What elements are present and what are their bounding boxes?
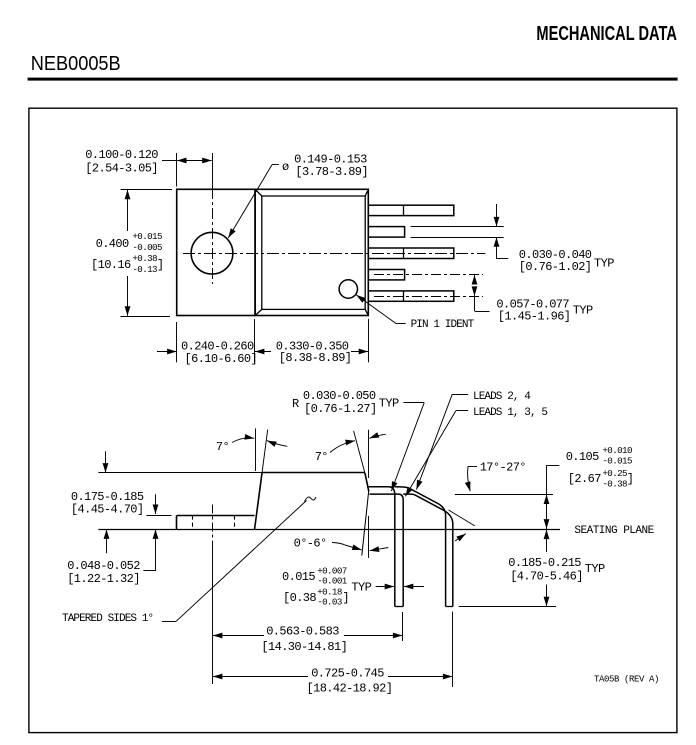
- svg-text:[10.16: [10.16: [91, 258, 131, 272]
- svg-text:[0.38: [0.38: [283, 591, 316, 605]
- svg-text:LEADS 1, 3, 5: LEADS 1, 3, 5: [473, 407, 547, 419]
- dimension: lead thickness 0.015 TYP: [282, 566, 424, 608]
- lead 1 centerline: [374, 296, 483, 298]
- lead 2 centerline: [374, 274, 483, 276]
- molded body inner (chamfer) outline: [262, 196, 365, 309]
- svg-text:[4.70-5.46]: [4.70-5.46]: [510, 570, 583, 584]
- dimension: hole offset 0.100-0.120: [85, 148, 211, 187]
- body chamfer diagonal bottom-right: [365, 309, 368, 315]
- svg-text:0.400: 0.400: [96, 237, 129, 251]
- svg-text:[8.38-8.89]: [8.38-8.89]: [279, 351, 352, 365]
- svg-text:[2.54-3.05]: [2.54-3.05]: [85, 161, 158, 175]
- border frame: [29, 108, 677, 732]
- dimension: tab height 0.400: [91, 190, 172, 317]
- svg-text:]: ]: [342, 591, 349, 605]
- svg-text:0.100-0.120: 0.100-0.120: [85, 148, 158, 162]
- svg-text:TA05B (REV A): TA05B (REV A): [594, 674, 659, 684]
- hole hidden edge left: [192, 515, 194, 529]
- dimension: tab width 0.240-0.260: [157, 319, 271, 366]
- lead bend tangent reference line: [449, 510, 475, 526]
- dimension: hole diameter 0.149-0.153: [228, 152, 368, 238]
- body right side upper: [365, 473, 369, 491]
- left 7 deg construction: [216, 428, 288, 473]
- dimension: 0.725-0.745: [213, 612, 453, 696]
- body chamfer diagonal bottom-left: [255, 309, 262, 315]
- lead 3 (middle): [368, 248, 454, 259]
- svg-text:ø: ø: [282, 160, 289, 174]
- svg-text:[2.67: [2.67: [568, 472, 601, 486]
- svg-text:-0.38: -0.38: [602, 479, 627, 490]
- body top edge: [262, 472, 365, 474]
- svg-text:+0.38: +0.38: [132, 253, 157, 264]
- svg-text:7°: 7°: [315, 450, 328, 464]
- svg-text:-0.03: -0.03: [317, 597, 342, 608]
- dimension: tab thickness 0.048-0.052: [67, 494, 156, 586]
- body right side lower / 0-6 deg draft line: [362, 491, 369, 556]
- label: LEADS 1,3,5: [405, 407, 547, 496]
- dimension: 0.563-0.583: [213, 612, 403, 654]
- dimension: lead angle 17-27 deg: [455, 461, 553, 541]
- svg-text:]: ]: [157, 258, 164, 272]
- svg-text:TYP: TYP: [351, 580, 371, 594]
- label: PIN 1 IDENT: [356, 295, 474, 331]
- tab top extension line: [147, 515, 172, 517]
- lead tip extension line: [459, 606, 556, 608]
- lead 2,4 (front, bends down near body): [369, 487, 404, 607]
- svg-text:0.725-0.745: 0.725-0.745: [311, 666, 384, 680]
- svg-text:0.563-0.583: 0.563-0.583: [266, 625, 339, 639]
- hole centerline extension to dimensions: [212, 546, 214, 684]
- dimension: bend radius R 0.030-0.050 TYP: [292, 389, 424, 491]
- seating plane line / tab and body bottom: [98, 529, 560, 531]
- svg-text:[0.76-1.02]: [0.76-1.02]: [519, 260, 592, 274]
- svg-text:R: R: [292, 397, 299, 411]
- body chamfer diagonal top-left: [255, 189, 262, 196]
- lead 5 (top): [368, 205, 454, 215]
- svg-text:TYP: TYP: [585, 562, 605, 576]
- svg-text:[4.45-4.70]: [4.45-4.70]: [71, 502, 144, 516]
- tab top edge: [177, 515, 255, 517]
- svg-text:TYP: TYP: [594, 257, 614, 271]
- svg-text:+0.010: +0.010: [602, 445, 632, 456]
- hole centerline dash-dot: [212, 505, 214, 547]
- lead 2 (short): [368, 270, 404, 280]
- dimension: body height 0.175-0.185: [71, 451, 144, 553]
- svg-text:MECHANICAL DATA: MECHANICAL DATA: [536, 23, 677, 45]
- svg-text:SEATING PLANE: SEATING PLANE: [574, 525, 654, 537]
- svg-text:17°-27°: 17°-27°: [480, 461, 526, 475]
- hole vertical centerline / extension: [212, 153, 214, 188]
- pin 1 ident circle: [339, 280, 357, 298]
- lead 4 (short): [368, 227, 404, 238]
- svg-text:[1.22-1.32]: [1.22-1.32]: [67, 572, 140, 586]
- dimension: lead pitch 0.057-0.077 TYP: [475, 275, 594, 324]
- dimension: 0-6 deg draft: [294, 516, 389, 558]
- svg-text:PIN 1 IDENT: PIN 1 IDENT: [411, 319, 475, 331]
- svg-text:[18.42-18.92]: [18.42-18.92]: [307, 682, 393, 696]
- svg-text:[6.10-6.60]: [6.10-6.60]: [185, 352, 258, 366]
- svg-text:-0.015: -0.015: [602, 456, 632, 467]
- svg-text:]: ]: [627, 472, 634, 486]
- dimension: body width 0.330-0.350: [276, 319, 369, 365]
- label: TAPERED SIDES 1 deg with squiggle leader: [62, 497, 316, 625]
- lead 1,3,5 (back, extends then bends at angle): [395, 487, 453, 607]
- body top extension line (left): [98, 472, 262, 474]
- svg-text:LEADS 2, 4: LEADS 2, 4: [473, 391, 531, 403]
- right 7 deg construction: [315, 430, 386, 478]
- svg-text:[0.76-1.27]: [0.76-1.27]: [304, 402, 377, 416]
- lead bottom extension line: [455, 494, 553, 496]
- svg-text:-0.005: -0.005: [132, 242, 162, 253]
- svg-text:[14.30-14.81]: [14.30-14.81]: [261, 640, 347, 654]
- svg-text:NEB0005B: NEB0005B: [31, 53, 121, 75]
- svg-text:TYP: TYP: [379, 397, 399, 411]
- dimension: lead width 0.030-0.040 TYP: [411, 204, 615, 274]
- svg-text:-0.001: -0.001: [317, 576, 348, 587]
- svg-text:-0.13: -0.13: [132, 264, 157, 275]
- tab left edge: [176, 515, 178, 529]
- body chamfer diagonal top-right: [365, 189, 368, 196]
- svg-text:TYP: TYP: [573, 304, 593, 318]
- mounting tab outline: [177, 189, 255, 315]
- svg-text:0.105: 0.105: [566, 450, 599, 464]
- svg-text:0.185-0.215: 0.185-0.215: [508, 556, 581, 570]
- molded body outer outline: [255, 189, 368, 315]
- svg-text:0°-6°: 0°-6°: [294, 536, 327, 550]
- hole hidden edge right: [234, 515, 236, 529]
- lead 1 (bottom): [368, 291, 454, 301]
- svg-text:0.015: 0.015: [282, 570, 315, 584]
- svg-text:7°: 7°: [216, 440, 229, 454]
- body left tapered side: [255, 473, 262, 529]
- svg-text:0.048-0.052: 0.048-0.052: [67, 559, 140, 573]
- svg-text:[1.45-1.96]: [1.45-1.96]: [498, 310, 571, 324]
- svg-text:+0.25: +0.25: [602, 468, 627, 479]
- dimension: stand-off 0.105 and lead length 0.185-0.215: [459, 445, 655, 607]
- mounting hole: [191, 232, 233, 274]
- svg-text:+0.015: +0.015: [132, 231, 162, 242]
- label: LEADS 2,4: [416, 391, 531, 490]
- package horizontal centerline: [183, 253, 485, 255]
- svg-text:TAPERED SIDES 1°: TAPERED SIDES 1°: [62, 613, 153, 625]
- header rule: [28, 78, 678, 81]
- svg-text:[3.78-3.89]: [3.78-3.89]: [295, 165, 368, 179]
- svg-text:0.030-0.050: 0.030-0.050: [303, 389, 376, 403]
